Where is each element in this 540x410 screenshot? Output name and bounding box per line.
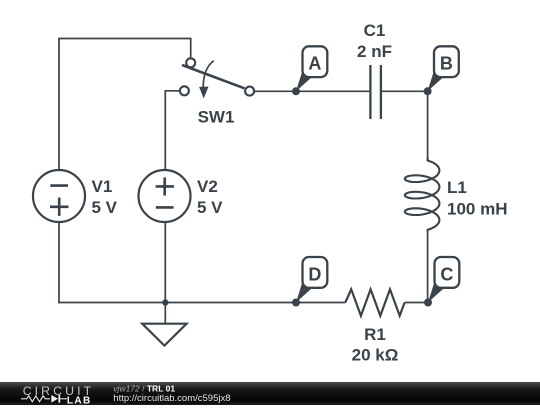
resistor R1: [345, 289, 404, 316]
voltage source V1: [33, 170, 85, 222]
footer bar: [0, 382, 540, 405]
label L1 value: [447, 178, 507, 219]
svg-text:B: B: [440, 54, 453, 74]
ground symbol: [142, 324, 186, 346]
node C dot: [424, 299, 432, 307]
node A dot: [292, 87, 300, 95]
svg-text:SW1: SW1: [198, 107, 235, 126]
wire switch lower pole to V2 top: [165, 91, 180, 170]
svg-text:vjw172 / TRL 01: vjw172 / TRL 01: [113, 383, 175, 393]
label C1 value: [357, 21, 392, 61]
switch SW1 blade: [182, 65, 245, 88]
svg-text:D: D: [308, 264, 321, 284]
label V2 value: [197, 177, 223, 217]
svg-text:20 kΩ: 20 kΩ: [352, 345, 399, 364]
junction dot V2/ground: [162, 299, 168, 305]
wire node B down to inductor L1: [427, 91, 429, 158]
capacitor C1: [370, 65, 381, 119]
footer title text: [113, 383, 175, 393]
label V1 value: [92, 177, 118, 217]
svg-text:C: C: [440, 264, 453, 284]
wire switch throw to capacitor: [254, 90, 369, 92]
label R1 value: [352, 325, 399, 364]
wire top-left rail from V1 to switch pole: [59, 39, 191, 171]
node A flag: [296, 46, 327, 91]
footer CircuitLab logo: [21, 384, 94, 406]
svg-text:100 mH: 100 mH: [447, 200, 507, 219]
switch SW1 lower pole terminal circle: [180, 86, 189, 95]
wire bottom rail right of resistor to node C: [405, 302, 428, 304]
footer url text: [113, 393, 230, 404]
voltage source V2: [139, 170, 191, 222]
svg-text:5 V: 5 V: [92, 198, 118, 217]
wire inductor L1 to node C: [427, 230, 429, 304]
label SW1: [198, 107, 235, 126]
node D flag: [296, 257, 327, 303]
svg-text:A: A: [308, 54, 321, 74]
svg-text:C1: C1: [364, 21, 386, 40]
wire bottom ground rail left section: [58, 302, 345, 304]
wire ground stub: [164, 303, 166, 324]
node C flag: [428, 257, 459, 303]
node B dot: [424, 87, 432, 95]
node D dot: [292, 299, 300, 307]
svg-text:V2: V2: [197, 177, 218, 196]
svg-text:2 nF: 2 nF: [357, 42, 392, 61]
svg-text:V1: V1: [92, 177, 113, 196]
svg-text:5 V: 5 V: [197, 198, 223, 217]
wire V1 bottom to ground rail: [58, 222, 60, 303]
wire capacitor to node B corner: [382, 90, 429, 92]
switch SW1 pole terminal circle: [186, 58, 195, 67]
switch SW1 actuation arrow: [199, 61, 214, 99]
svg-text:L1: L1: [447, 178, 467, 197]
inductor L1 coil: [405, 157, 440, 231]
svg-text:http://circuitlab.com/c595jx8: http://circuitlab.com/c595jx8: [113, 393, 230, 404]
switch SW1 throw terminal circle: [245, 87, 254, 96]
svg-text:R1: R1: [364, 325, 386, 344]
node B flag: [428, 46, 459, 91]
wire V2 bottom to ground junction: [164, 222, 166, 303]
svg-text:LAB: LAB: [67, 395, 92, 405]
